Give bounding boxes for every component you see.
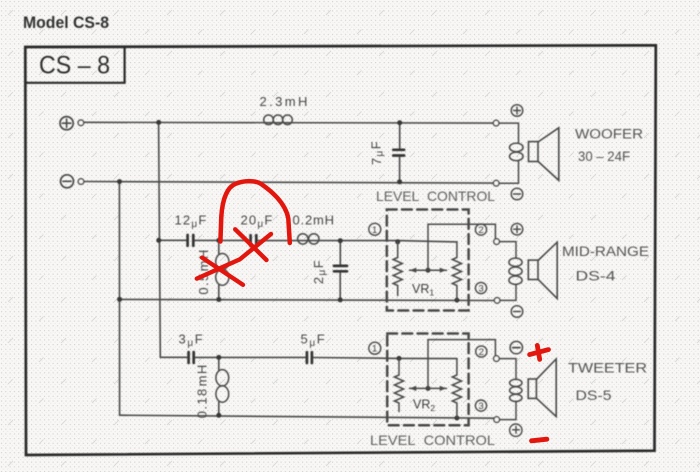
svg-text:2.3mH: 2.3mH	[260, 94, 310, 109]
svg-text:DS-5: DS-5	[576, 387, 612, 403]
svg-text:MID-RANGE: MID-RANGE	[562, 244, 649, 260]
svg-text:LEVEL CONTROL: LEVEL CONTROL	[370, 432, 495, 448]
svg-text:2: 2	[479, 347, 484, 358]
svg-text:0.2mH: 0.2mH	[293, 213, 335, 228]
svg-text:20μF: 20μF	[241, 213, 274, 231]
svg-text:Model CS-8: Model CS-8	[23, 14, 109, 32]
svg-text:12μF: 12μF	[175, 213, 208, 231]
svg-text:TWEETER: TWEETER	[568, 361, 647, 377]
svg-text:1: 1	[372, 344, 377, 355]
svg-text:DS-4: DS-4	[576, 268, 616, 284]
svg-text:WOOFER: WOOFER	[575, 127, 643, 143]
svg-text:1: 1	[372, 225, 377, 236]
svg-text:0.18mH: 0.18mH	[195, 363, 210, 418]
svg-text:3: 3	[478, 401, 483, 412]
svg-text:CS – 8: CS – 8	[39, 52, 110, 80]
svg-text:30 – 24F: 30 – 24F	[578, 148, 630, 164]
svg-text:LEVEL CONTROL: LEVEL CONTROL	[376, 189, 495, 204]
svg-text:2: 2	[478, 225, 483, 236]
svg-text:3: 3	[478, 284, 483, 295]
